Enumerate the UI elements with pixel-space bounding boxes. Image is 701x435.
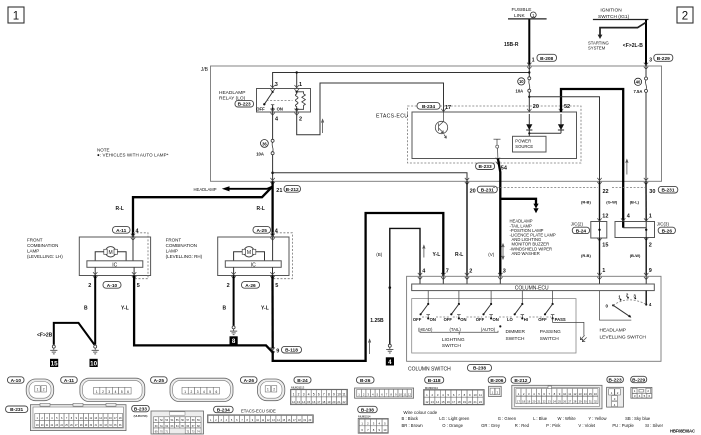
svg-text:(TAIL): (TAIL) — [450, 327, 462, 332]
svg-text:LIGHTING: LIGHTING — [442, 337, 465, 343]
svg-text:B-238: B-238 — [473, 366, 486, 372]
connector B-212 drawing — [512, 385, 602, 409]
svg-text:5: 5 — [209, 390, 211, 394]
svg-text:10: 10 — [474, 393, 478, 397]
column-ecu bar — [412, 284, 655, 292]
label ETACS-ECU SIDE — [241, 409, 276, 414]
svg-text:LAMP: LAMP — [166, 249, 178, 254]
LH ground wire B — [84, 276, 95, 345]
svg-text:20: 20 — [533, 104, 539, 110]
svg-text:COLUMN-ECU: COLUMN-ECU — [515, 286, 549, 292]
svg-text:14: 14 — [302, 400, 306, 404]
svg-text:7.5A: 7.5A — [634, 89, 643, 94]
svg-text:12: 12 — [573, 392, 577, 396]
relay pin 2 — [295, 109, 303, 123]
headlamp levelling switch — [600, 291, 652, 341]
svg-text:A-11: A-11 — [64, 378, 74, 384]
svg-text:IC: IC — [112, 262, 117, 268]
svg-text:17: 17 — [445, 105, 451, 111]
svg-text:15: 15 — [441, 400, 445, 404]
svg-text:B-234: B-234 — [422, 104, 435, 110]
connector tag A-26 — [241, 377, 258, 384]
svg-text:16: 16 — [594, 392, 598, 396]
svg-text:17: 17 — [317, 400, 321, 404]
ETACS-ECU dashed outline — [408, 106, 582, 163]
connector A-25 pin 4 — [253, 227, 279, 241]
svg-text:(LEVELLING: LH): (LEVELLING: LH) — [27, 254, 63, 259]
svg-text:W : White: W : White — [558, 416, 577, 421]
svg-text:2: 2 — [190, 390, 192, 394]
J/B exit pin 20 B-231 — [465, 178, 498, 194]
svg-text:10: 10 — [337, 393, 341, 397]
svg-text:22: 22 — [342, 400, 346, 404]
junction block J/B — [201, 66, 662, 181]
current arrow beside power wire — [626, 160, 628, 175]
svg-text:15: 15 — [589, 392, 593, 396]
current arrow beside pin4 wire — [423, 245, 425, 257]
wire R-B J/C(2) to column pin 1 — [581, 238, 608, 276]
svg-text:B-24: B-24 — [576, 228, 587, 234]
connector tag B-231 — [6, 406, 28, 413]
svg-text:21: 21 — [276, 188, 282, 194]
svg-text:BR : Brown: BR : Brown — [402, 423, 424, 428]
joint connector J/C(3) B-26 — [615, 218, 675, 237]
svg-text:B-229: B-229 — [632, 377, 645, 383]
svg-text:22: 22 — [603, 189, 609, 195]
svg-text:12: 12 — [425, 400, 429, 404]
lighting switch bracket and label — [420, 331, 498, 349]
svg-text:A-26: A-26 — [245, 283, 256, 289]
svg-text:Y-L: Y-L — [261, 306, 269, 312]
svg-text:ON: ON — [493, 317, 499, 322]
svg-text:B: B — [84, 306, 88, 312]
svg-text:J/B: J/B — [201, 67, 209, 73]
svg-text:LEVELLING SWITCH: LEVELLING SWITCH — [600, 334, 647, 340]
RH lamp pin 2 A-26 — [227, 267, 260, 289]
svg-text:3: 3 — [197, 390, 199, 394]
svg-text:4: 4 — [627, 214, 631, 220]
svg-text:1: 1 — [299, 82, 302, 88]
wire ETACS pin 52 power feed — [561, 89, 623, 222]
svg-text:MU801514: MU801514 — [358, 414, 371, 418]
svg-text:B: B — [223, 306, 227, 312]
svg-text:GR : Grey: GR : Grey — [481, 423, 501, 428]
svg-text:SI : Silver: SI : Silver — [645, 423, 664, 428]
wire (B) ground for column switch — [370, 228, 420, 344]
svg-text:B-208: B-208 — [540, 56, 553, 62]
column switch box — [407, 276, 661, 361]
svg-text:2: 2 — [227, 283, 230, 289]
svg-text:●: VEHICLES WITH AUTO LAMP*: ●: VEHICLES WITH AUTO LAMP* — [97, 153, 169, 158]
earth point 10 — [90, 359, 98, 368]
svg-text:1: 1 — [532, 57, 535, 63]
drawing number — [670, 429, 695, 434]
svg-text:1: 1 — [96, 390, 98, 394]
wire Y-L from LH lamp pin 5 — [121, 276, 273, 353]
svg-text:B-229: B-229 — [657, 56, 670, 62]
ETACS internal switch to pin 54 — [494, 139, 501, 158]
svg-text:PASSING: PASSING — [540, 329, 561, 335]
svg-text:12: 12 — [292, 400, 296, 404]
svg-text:OFF: OFF — [476, 317, 485, 322]
label G-W power wire — [606, 199, 631, 219]
svg-text:5: 5 — [313, 393, 315, 397]
dashed connector line pins 22-30 — [493, 187, 645, 189]
svg-text:(B-L): (B-L) — [630, 199, 640, 204]
svg-text:HEADLAMP: HEADLAMP — [600, 328, 626, 334]
svg-text:(G-W): (G-W) — [606, 199, 618, 204]
ignition switch label — [593, 7, 649, 19]
svg-text:10: 10 — [90, 360, 97, 367]
svg-text:(MU803796): (MU803796) — [134, 414, 148, 418]
svg-text:AND WASHER: AND WASHER — [512, 251, 540, 256]
svg-text:A-25: A-25 — [154, 378, 165, 384]
svg-text:P : Pink: P : Pink — [546, 423, 561, 428]
connector B-26 drawing — [355, 388, 414, 398]
svg-text:3: 3 — [503, 269, 506, 275]
RH levelling motor — [234, 237, 273, 261]
svg-text:18: 18 — [322, 400, 326, 404]
arrow to HEADLAMP circuit — [194, 186, 273, 192]
column switch pin crossings — [418, 273, 649, 280]
svg-text:OFF: OFF — [538, 317, 547, 322]
mechanical link dashed — [422, 316, 551, 318]
RH lamp pin 5 — [270, 267, 278, 289]
RH ground — [230, 326, 237, 335]
J/C exit chevrons — [597, 238, 648, 241]
svg-text:7: 7 — [323, 393, 325, 397]
wire Y-L loop to column switch pin 7 — [273, 213, 444, 361]
svg-text:9: 9 — [333, 393, 335, 397]
svg-text:2: 2 — [626, 293, 629, 298]
svg-text:POWER: POWER — [515, 139, 531, 144]
svg-text:B-231: B-231 — [661, 188, 674, 194]
svg-text:2: 2 — [469, 269, 472, 275]
svg-text:MU801513: MU801513 — [291, 386, 305, 390]
svg-text:ON: ON — [460, 317, 466, 322]
svg-text:19: 19 — [327, 400, 331, 404]
svg-text:HEADLAMP: HEADLAMP — [194, 187, 217, 192]
svg-text:R-L: R-L — [455, 252, 463, 258]
wire bus from battery feed to relay — [273, 66, 531, 89]
svg-text:4: 4 — [275, 229, 279, 235]
connector B-233 pin 54 — [476, 158, 508, 172]
current arrow beside (V) wire — [502, 244, 504, 259]
svg-text:LO: LO — [507, 317, 514, 322]
svg-text:(B-W): (B-W) — [630, 253, 641, 258]
relay pin 1 — [295, 82, 303, 92]
passing switch contact — [538, 291, 566, 342]
svg-text:FRONT: FRONT — [27, 238, 43, 243]
power source box — [513, 136, 547, 152]
svg-text:B-118: B-118 — [285, 348, 298, 354]
transistor in ETACS — [435, 112, 447, 138]
relay coil parallel resistor — [297, 92, 306, 110]
svg-text:B-26: B-26 — [662, 228, 673, 234]
wire 2L-B from ignition switch — [623, 20, 646, 66]
svg-text:LG : Light green: LG : Light green — [439, 416, 470, 421]
svg-text:11: 11 — [342, 393, 346, 397]
connector B-238 drawing — [358, 414, 388, 433]
connector B-233 drawing — [134, 411, 204, 434]
svg-text:9: 9 — [276, 349, 279, 355]
wire 10A fuse to J/B pin 22 — [528, 96, 599, 182]
svg-text:3: 3 — [275, 82, 278, 88]
LH levelling motor — [95, 237, 133, 261]
relay pin 4 — [270, 109, 279, 140]
svg-text:COLUMN SWITCH: COLUMN SWITCH — [408, 367, 451, 373]
svg-text:SWITCH: SWITCH — [506, 336, 525, 342]
svg-text:11: 11 — [568, 392, 571, 396]
svg-text:4: 4 — [308, 393, 310, 397]
svg-text:5: 5 — [275, 283, 278, 289]
svg-text:J/C(2): J/C(2) — [571, 222, 584, 227]
svg-text:LAMP: LAMP — [27, 249, 39, 254]
svg-text:7: 7 — [446, 269, 449, 275]
svg-text:SB : Sky blue: SB : Sky blue — [625, 416, 651, 421]
svg-text:2: 2 — [88, 283, 91, 289]
connector B-208 pin 1 — [527, 54, 556, 69]
svg-text:2: 2 — [102, 390, 104, 394]
svg-text:11: 11 — [403, 393, 406, 397]
label (V) at column pin 3 — [488, 252, 495, 257]
svg-text:8: 8 — [232, 338, 236, 345]
svg-text:B-24: B-24 — [297, 378, 308, 384]
connector A-26 drawing — [257, 379, 284, 401]
svg-text:(V): (V) — [488, 252, 495, 257]
branch arrow to starting system — [588, 22, 646, 50]
svg-text:10: 10 — [563, 392, 567, 396]
wire colour code title — [403, 410, 437, 415]
connector tag A-10 — [8, 377, 25, 384]
RH IC box — [225, 261, 281, 269]
svg-text:OFF: OFF — [256, 106, 265, 111]
connector tag A-11 — [61, 377, 77, 384]
svg-text:B-212: B-212 — [286, 187, 299, 193]
svg-text:15: 15 — [51, 360, 58, 367]
svg-text:IC: IC — [251, 262, 256, 268]
svg-text:MU801513: MU801513 — [425, 386, 439, 390]
svg-text:1.25B: 1.25B — [370, 318, 384, 324]
svg-text:12: 12 — [408, 393, 412, 397]
svg-text:Y-L: Y-L — [121, 306, 129, 312]
svg-text:18: 18 — [457, 400, 461, 404]
svg-text:17: 17 — [452, 400, 456, 404]
front combination lamp RH labels — [166, 238, 203, 260]
svg-text:1: 1 — [649, 214, 652, 220]
svg-text:21: 21 — [474, 400, 478, 404]
svg-text:13: 13 — [297, 400, 301, 404]
svg-text:Wire colour code: Wire colour code — [403, 410, 437, 415]
passing aux wire — [553, 318, 587, 341]
J/B exit pin 21 B-212 — [270, 178, 300, 194]
ETACS-ECU box — [376, 112, 577, 159]
svg-text:Y : Yellow: Y : Yellow — [588, 416, 607, 421]
svg-text:16: 16 — [312, 400, 316, 404]
svg-text:<F>2L-B: <F>2L-B — [623, 43, 643, 49]
svg-text:1: 1 — [37, 388, 39, 392]
svg-text:9: 9 — [649, 268, 652, 274]
svg-text:A-26: A-26 — [244, 378, 255, 384]
connector tag B-229 — [631, 376, 647, 383]
connector tag B-118 — [425, 377, 444, 384]
current arrow at wire x320 — [321, 119, 323, 133]
connector tag A-25 — [151, 377, 168, 384]
LH ground — [92, 345, 99, 354]
svg-text:3: 3 — [649, 57, 652, 63]
svg-text:10A: 10A — [256, 151, 264, 156]
wire B-L J/B pin30 to J/C(3) — [630, 181, 652, 221]
ground for column switch — [386, 344, 393, 353]
branch to earth point 15 — [37, 323, 94, 345]
svg-text:B : Black: B : Black — [402, 416, 419, 421]
ETACS pin 20 diode — [526, 104, 539, 137]
connector B-223 drawing — [607, 387, 624, 407]
svg-text:36: 36 — [262, 141, 267, 146]
lighting switch HEAD contact — [413, 291, 436, 332]
connector tag B-233 — [132, 405, 150, 412]
svg-text:A-25: A-25 — [256, 228, 267, 234]
svg-text:B-238: B-238 — [361, 407, 374, 413]
svg-text:B-233: B-233 — [479, 164, 492, 170]
column switch label B-238 — [408, 364, 492, 372]
svg-text:0: 0 — [605, 304, 608, 309]
svg-text:B-231: B-231 — [10, 407, 23, 413]
connector B-231 drawing — [30, 403, 126, 430]
connector B-229 pin 3 — [644, 54, 673, 69]
svg-text:6: 6 — [127, 390, 129, 394]
svg-text:A-10: A-10 — [11, 378, 22, 384]
relay pin 3 — [270, 82, 277, 92]
svg-text:1: 1 — [293, 393, 295, 397]
svg-text:HBF08E08AC: HBF08E08AC — [670, 429, 695, 434]
connector tag B-223 — [607, 376, 624, 383]
label Y-L at column pin 7 — [433, 252, 441, 258]
connector B-206 drawing — [489, 386, 502, 396]
front combination lamp LH box — [79, 233, 150, 279]
svg-text:2: 2 — [43, 388, 45, 392]
LH lamp pin 5 — [132, 267, 140, 289]
connector tag B-24 — [294, 377, 311, 384]
svg-text:2: 2 — [298, 393, 300, 397]
connector B-24 drawing — [291, 386, 348, 405]
connector tag B-26 — [357, 377, 375, 384]
svg-text:M: M — [247, 250, 251, 256]
svg-text:A-11: A-11 — [116, 228, 126, 234]
svg-text:4: 4 — [422, 269, 426, 275]
svg-text:ON: ON — [277, 106, 283, 111]
fuse 40 7.5A — [634, 66, 648, 181]
svg-text:PU : Purple: PU : Purple — [612, 423, 634, 428]
connector A-11 pin 4 — [113, 227, 140, 241]
pin stubs into column-ecu — [420, 276, 646, 284]
connector tag B-206 — [488, 377, 506, 384]
svg-text:19: 19 — [463, 400, 467, 404]
earth point 4 — [386, 357, 394, 366]
svg-text:2: 2 — [299, 116, 302, 122]
svg-text:22: 22 — [479, 400, 483, 404]
svg-text:8: 8 — [328, 393, 330, 397]
current arrow beside Y-L loop — [368, 339, 370, 354]
svg-text:5: 5 — [137, 283, 140, 289]
svg-text:<F>2B: <F>2B — [37, 333, 53, 339]
svg-text:10: 10 — [383, 428, 387, 432]
svg-text:12: 12 — [602, 214, 608, 220]
svg-text:4: 4 — [203, 390, 205, 394]
J/B exit pin 22 — [597, 178, 608, 195]
lighting switch TAIL contact — [444, 291, 467, 332]
page frame marker 2 — [677, 7, 693, 23]
svg-text:B-206: B-206 — [490, 378, 503, 384]
headlamp relay (LO) B-223 — [219, 89, 311, 113]
J/B exit pin 30 B-231 — [644, 178, 678, 195]
junction dot relay output — [271, 172, 274, 175]
svg-text:(R-B): (R-B) — [581, 199, 591, 204]
svg-text:21: 21 — [337, 400, 341, 404]
wire Y-L from RH lamp pin 5 — [261, 276, 273, 349]
wire B-W J/C(3) to column pin 9 — [630, 238, 652, 277]
earth point 8 — [230, 336, 238, 345]
svg-text:(B): (B) — [376, 252, 383, 257]
svg-text:J/C(3): J/C(3) — [657, 222, 670, 227]
svg-text:1: 1 — [267, 388, 269, 392]
svg-text:6: 6 — [318, 393, 320, 397]
wire colour code line 1 — [402, 416, 651, 421]
svg-text:B-223: B-223 — [238, 102, 251, 108]
svg-text:4: 4 — [649, 302, 652, 307]
ground 15 — [50, 345, 57, 354]
svg-text:14: 14 — [584, 392, 588, 396]
svg-text:4: 4 — [115, 390, 117, 394]
svg-text:(LEVELLING: RH): (LEVELLING: RH) — [166, 254, 203, 259]
relay coil — [295, 91, 298, 112]
svg-text:B-234: B-234 — [217, 407, 230, 413]
page frame marker 1 — [8, 7, 24, 23]
svg-text:20: 20 — [468, 400, 472, 404]
svg-text:ON: ON — [430, 317, 436, 322]
svg-text:B-223: B-223 — [609, 377, 622, 383]
branch arrow to headlamp tail lamp circuits — [500, 199, 538, 213]
lighting switch AUTO contact — [476, 291, 502, 332]
connector A-10 drawing — [26, 379, 54, 401]
svg-text:O : Orange: O : Orange — [442, 423, 463, 428]
column pin numbers — [422, 269, 506, 275]
connector B-118 drawing — [424, 386, 485, 405]
svg-text:52: 52 — [564, 104, 570, 110]
svg-text:13: 13 — [431, 400, 435, 404]
fusible link label — [508, 7, 547, 19]
svg-text:3: 3 — [633, 293, 636, 298]
svg-text:2: 2 — [273, 388, 275, 392]
svg-text:OFF: OFF — [444, 317, 453, 322]
svg-text:PASS: PASS — [555, 317, 566, 322]
svg-text:ETACS-ECU SIDE: ETACS-ECU SIDE — [241, 409, 276, 414]
svg-text:L : Blue: L : Blue — [533, 416, 548, 421]
svg-text:13: 13 — [578, 392, 582, 396]
svg-text:COMBINATION: COMBINATION — [27, 243, 58, 248]
relay switch arm — [256, 91, 292, 112]
connector B-234 pin 17 — [417, 103, 451, 112]
wire R-L to front combination lamps — [116, 181, 273, 237]
svg-text:B-118: B-118 — [428, 378, 441, 384]
ETACS pin 52 diode — [528, 104, 570, 135]
svg-text:HI: HI — [524, 317, 528, 322]
svg-text:SYSTEM: SYSTEM — [588, 46, 606, 51]
svg-text:4: 4 — [388, 359, 392, 366]
svg-text:R-L: R-L — [257, 206, 265, 212]
svg-text:B-231: B-231 — [481, 187, 494, 193]
svg-text:5: 5 — [121, 390, 123, 394]
